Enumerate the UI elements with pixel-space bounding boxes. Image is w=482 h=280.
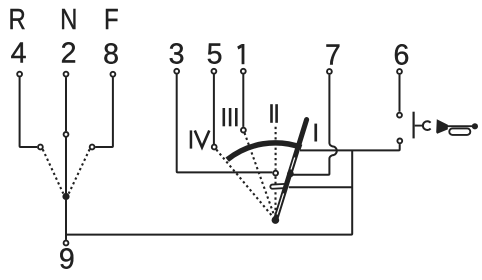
push-button actuator cap xyxy=(423,121,431,130)
lever (wiper at position I) xyxy=(275,120,306,221)
svg-text:N: N xyxy=(60,3,77,35)
wire contact pad line to right riser xyxy=(289,186,352,188)
horn ball tip xyxy=(472,123,478,129)
contact pad at position II feed xyxy=(270,184,288,189)
horn tube xyxy=(446,125,472,127)
rotary pivot dot xyxy=(272,216,280,224)
dotted ray rotary pivot to IV contact xyxy=(216,150,273,218)
terminal 3 xyxy=(174,69,179,74)
svg-text:2: 2 xyxy=(61,37,77,69)
wire terminal3 down and right to II contact xyxy=(177,74,273,172)
selector pivot dot xyxy=(62,193,69,200)
svg-text:R: R xyxy=(8,3,25,35)
svg-text:9: 9 xyxy=(59,244,75,276)
label III xyxy=(223,108,238,126)
dotted ray II contact to rotary pivot xyxy=(274,177,276,217)
svg-text:3: 3 xyxy=(169,39,185,71)
wire terminal6 down to push-button upper contact xyxy=(399,75,401,112)
label 1 xyxy=(237,44,244,64)
junction dot lever to wire from 7 xyxy=(287,171,294,178)
terminal 7 xyxy=(327,69,332,74)
lever white core upper xyxy=(291,158,295,170)
svg-text:4: 4 xyxy=(11,37,27,69)
label I xyxy=(314,124,317,142)
dotted ray pivot to F contact xyxy=(69,149,90,193)
contact IV xyxy=(212,145,217,150)
terminal 6 xyxy=(397,69,402,74)
contact III xyxy=(241,128,246,133)
push-button bridge bar xyxy=(413,112,415,139)
push-button upper contact xyxy=(397,113,402,118)
push-button lower contact xyxy=(397,139,402,144)
terminal 1 xyxy=(241,69,246,74)
contact F xyxy=(90,145,95,150)
svg-text:F: F xyxy=(104,3,119,35)
svg-text:6: 6 xyxy=(393,39,409,71)
wire selector pivot to terminal9 xyxy=(65,200,67,240)
label II xyxy=(270,104,278,123)
dotted ray rotary pivot to III contact xyxy=(245,133,275,217)
terminal 2 xyxy=(64,72,69,77)
svg-text:8: 8 xyxy=(103,38,119,70)
label IV xyxy=(190,130,210,148)
dotted ray II label to II contact xyxy=(275,127,277,170)
svg-text:7: 7 xyxy=(325,39,341,71)
push-button actuator stem xyxy=(415,125,423,127)
contact N xyxy=(64,132,69,137)
wire terminal8 down-left to F contact xyxy=(95,77,113,147)
selector arc xyxy=(227,143,301,160)
wire terminal1 down to III contact xyxy=(242,74,244,127)
horn loop body xyxy=(449,128,470,135)
svg-text:5: 5 xyxy=(207,39,223,71)
wire terminal5 down to IV contact xyxy=(213,74,215,144)
terminal 5 xyxy=(212,69,217,74)
wire terminal7 down with hop over horn wire then left to lever junction xyxy=(291,75,337,175)
contact II xyxy=(273,171,278,176)
contact R xyxy=(38,145,43,150)
wire N contact to selector pivot xyxy=(65,138,67,194)
dotted ray pivot to R contact xyxy=(43,149,64,193)
lever white core lower xyxy=(277,193,284,214)
terminal 4 xyxy=(17,72,22,77)
horn bell xyxy=(436,119,448,134)
terminal 8 xyxy=(111,72,116,77)
wire bottom bus from 9 to right riser up to horn line xyxy=(66,150,352,234)
terminal 9 xyxy=(64,241,69,246)
wire lever tip to push-button lower contact (horn feed) xyxy=(300,144,400,150)
wire terminal2 down to N contact xyxy=(65,77,67,131)
wire terminal4 down-right to R contact xyxy=(20,77,38,147)
